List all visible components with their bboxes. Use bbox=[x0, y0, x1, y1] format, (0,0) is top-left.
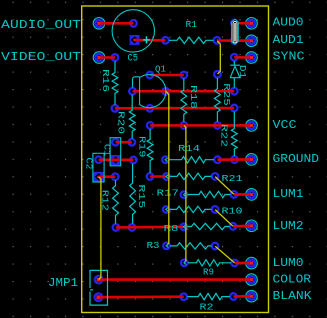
pad R25 top pad bbox=[214, 71, 221, 78]
pad R18 top pad bbox=[181, 72, 188, 79]
resistor R8 bbox=[187, 223, 229, 229]
svg-text:AUD1: AUD1 bbox=[273, 33, 304, 47]
resistor R14 bbox=[169, 157, 214, 163]
wire R9 to LUM0 bbox=[235, 262, 252, 265]
pad R1 left pad bbox=[162, 37, 169, 44]
pad R9 left pad bbox=[181, 260, 188, 267]
wire C5 to R1 bbox=[135, 39, 166, 42]
svg-text:AUDIO_OUT: AUDIO_OUT bbox=[1, 18, 81, 32]
svg-text:Q1: Q1 bbox=[155, 64, 166, 74]
svg-text:R9: R9 bbox=[203, 267, 214, 277]
pad R8 right pad bbox=[230, 223, 237, 230]
resistor R15 bbox=[130, 164, 136, 224]
net from C2 down to JMP1 pin1 bbox=[99, 177, 101, 280]
svg-text:R19: R19 bbox=[137, 136, 148, 158]
capacitor C5 outline bbox=[112, 10, 154, 52]
svg-text:C1: C1 bbox=[102, 144, 113, 156]
svg-text:R3: R3 bbox=[147, 241, 160, 251]
svg-text:R1: R1 bbox=[186, 20, 198, 30]
pad LUM1 bbox=[246, 189, 258, 201]
svg-text:R20: R20 bbox=[116, 111, 127, 134]
pad R2 right pad bbox=[230, 293, 237, 300]
wire JMP1 to R2 bbox=[98, 295, 183, 298]
wire R19 to VCC bbox=[150, 124, 251, 127]
pad J1 top pad bbox=[231, 20, 238, 27]
resistor R1 bbox=[169, 37, 213, 43]
pad LUM2 bbox=[246, 220, 258, 232]
pad C1 square pin bbox=[111, 155, 121, 165]
jumper JMP1 outline bbox=[90, 270, 108, 305]
wire R16 bottom to R22 top bbox=[115, 107, 234, 110]
net from R18 bottom down to R9 left pad bbox=[184, 126, 186, 263]
pad D1 anode pad bbox=[231, 88, 238, 95]
capacitor C2 outline bbox=[93, 153, 104, 182]
svg-text:COLOR: COLOR bbox=[273, 273, 312, 287]
pad Q1 pin 2 pad bbox=[163, 88, 170, 95]
svg-text:C2: C2 bbox=[84, 158, 95, 170]
pad AUDIO_OUT bbox=[93, 18, 105, 30]
pad R8 left pad bbox=[181, 224, 188, 231]
pad R9 right pad bbox=[231, 260, 238, 267]
pad R14 right pad bbox=[214, 156, 221, 163]
pad SYNC bbox=[246, 52, 258, 64]
wire R2 to BLANK bbox=[233, 295, 251, 298]
pad R15 top pad bbox=[130, 157, 137, 164]
net from Q1 pin2 down to R3 left pad bbox=[166, 92, 169, 246]
pad C2 top pad bbox=[95, 156, 102, 163]
pad C5 positive pin pad bbox=[130, 20, 137, 27]
pad D1 cathode pad bbox=[231, 54, 238, 61]
pad R25 bottom pad bbox=[214, 122, 221, 129]
pad R20 top pad bbox=[129, 88, 136, 95]
svg-text:SYNC: SYNC bbox=[273, 50, 305, 64]
svg-text:LUM1: LUM1 bbox=[273, 187, 304, 201]
pad R17 right pad bbox=[231, 191, 238, 198]
C5 plus mark bbox=[143, 36, 150, 43]
net R10 to R8 right pad diagonal bbox=[215, 210, 233, 227]
resistor R17 bbox=[188, 191, 231, 197]
pad R10 left pad bbox=[163, 206, 170, 213]
net R21 to R17 right pad diagonal bbox=[215, 177, 234, 195]
svg-text:JMP1: JMP1 bbox=[48, 276, 78, 290]
resistor R19 bbox=[147, 129, 153, 173]
transistor Q1 outline bbox=[140, 75, 166, 108]
svg-text:VIDEO_OUT: VIDEO_OUT bbox=[1, 50, 81, 64]
svg-text:R2: R2 bbox=[200, 302, 214, 312]
wire R1 to AUD1 bbox=[217, 39, 252, 42]
wire AUDIO_OUT to C5 bbox=[99, 22, 134, 25]
pad VCC bbox=[246, 120, 258, 132]
wire R17 to LUM1 bbox=[234, 193, 252, 196]
pad J1 bottom pad bbox=[231, 37, 238, 44]
resistor R2 bbox=[187, 293, 230, 299]
resistor R16 bbox=[112, 61, 118, 105]
svg-text:R18: R18 bbox=[188, 85, 199, 109]
resistor R10 bbox=[170, 206, 212, 212]
resistor R18 bbox=[181, 79, 187, 122]
svg-text:VCC: VCC bbox=[273, 118, 297, 132]
svg-text:R22: R22 bbox=[219, 124, 230, 147]
svg-text:R25: R25 bbox=[221, 83, 232, 106]
svg-text:C5: C5 bbox=[128, 54, 139, 65]
pad R20 bottom pad bbox=[129, 139, 136, 146]
pad R19 top pad bbox=[147, 122, 154, 129]
pad BLANK bbox=[246, 290, 258, 302]
pad Q1 pin 1 pad bbox=[147, 72, 154, 79]
net from R1 right pad down to R25 top bbox=[217, 41, 220, 74]
pad R16 bottom pad bbox=[112, 105, 119, 112]
pad COLOR bbox=[246, 274, 258, 286]
svg-text:LUM2: LUM2 bbox=[273, 219, 304, 233]
resistor R12 bbox=[113, 180, 119, 224]
pad Q1 pin 3 pad bbox=[147, 105, 154, 112]
svg-text:R17: R17 bbox=[157, 188, 180, 198]
svg-text:R21: R21 bbox=[222, 174, 243, 184]
pad C2 square pin bbox=[94, 172, 104, 182]
wire R8 to LUM2 bbox=[233, 225, 252, 228]
wire R20 to D1 anode bbox=[133, 90, 235, 93]
wire C2 to R12 top bbox=[99, 175, 116, 178]
wire comp to AUD0 bbox=[234, 22, 251, 25]
wire D1 to SYNC bbox=[234, 56, 251, 59]
svg-text:BLANK: BLANK bbox=[273, 289, 313, 303]
svg-text:R8: R8 bbox=[164, 224, 179, 234]
pad LUM0 bbox=[246, 257, 258, 269]
pad C5 square pin bbox=[130, 35, 140, 45]
pad GROUND bbox=[246, 154, 258, 166]
wire C1 row bbox=[116, 141, 132, 144]
resistor R20 bbox=[129, 95, 135, 139]
Q1 base lead bbox=[133, 77, 140, 88]
resistor R21 bbox=[170, 173, 211, 179]
wire VIDEO_OUT to R16 bbox=[99, 56, 115, 59]
pad R21 left pad bbox=[163, 173, 170, 180]
svg-text:R10: R10 bbox=[222, 207, 243, 217]
board outline bbox=[82, 6, 269, 313]
wire Q1 pin1 to R18 bbox=[150, 74, 184, 77]
svg-text:R14: R14 bbox=[178, 144, 200, 154]
pad R14 left pad bbox=[162, 156, 169, 163]
resistor R22 bbox=[231, 112, 237, 156]
wire R14 to GROUND bbox=[218, 158, 252, 161]
pad VIDEO_OUT bbox=[93, 52, 105, 64]
pad R1 right pad / node bbox=[214, 37, 221, 44]
pad AUD0 bbox=[246, 18, 258, 30]
pad R12 bottom pad bbox=[113, 224, 120, 231]
pad AUD1 bbox=[246, 35, 258, 47]
component J1 white body bbox=[232, 19, 239, 44]
pad R12 top pad bbox=[112, 173, 119, 180]
svg-text:R16: R16 bbox=[100, 69, 111, 92]
pad R3 left pad bbox=[163, 243, 170, 250]
pad JMP1 pin 2 bbox=[93, 292, 103, 302]
pad R10 right pad bbox=[212, 206, 219, 213]
pad R19 bottom pad bbox=[147, 173, 154, 180]
svg-text:D1: D1 bbox=[237, 65, 248, 79]
resistor R9 bbox=[188, 260, 231, 266]
svg-text:LUM0: LUM0 bbox=[273, 256, 304, 270]
net R3 to R9 right pad diagonal bbox=[215, 246, 234, 263]
resistor R3 bbox=[170, 243, 211, 249]
lead arrowheads bbox=[165, 158, 167, 162]
pad R2 left pad bbox=[180, 293, 187, 300]
wire JMP1 to COLOR bbox=[99, 278, 252, 281]
pad JMP1 pin 1 bbox=[94, 275, 104, 285]
wire C2 to R15 top bbox=[99, 159, 134, 162]
pad R22 top pad bbox=[231, 105, 238, 112]
diode D1 bbox=[230, 61, 240, 88]
wire R19 to R21 bbox=[150, 175, 167, 178]
pad R16 top pad bbox=[112, 54, 119, 61]
svg-text:GROUND: GROUND bbox=[273, 152, 320, 166]
pad R15 bottom pad bbox=[129, 224, 136, 231]
pad C1 top pad bbox=[112, 139, 119, 146]
pad R21 right pad bbox=[212, 173, 219, 180]
wire R12 bottom to R8 bbox=[116, 226, 184, 229]
svg-text:AUD0: AUD0 bbox=[273, 16, 304, 30]
capacitor C1 outline bbox=[110, 138, 121, 166]
pad R18 bottom pad bbox=[181, 122, 188, 129]
pad R22 bottom pad bbox=[231, 156, 238, 163]
pad R3 right pad bbox=[212, 243, 219, 250]
svg-text:R15: R15 bbox=[136, 184, 147, 208]
resistor R25 bbox=[215, 78, 221, 122]
pad R17 left pad bbox=[181, 191, 188, 198]
